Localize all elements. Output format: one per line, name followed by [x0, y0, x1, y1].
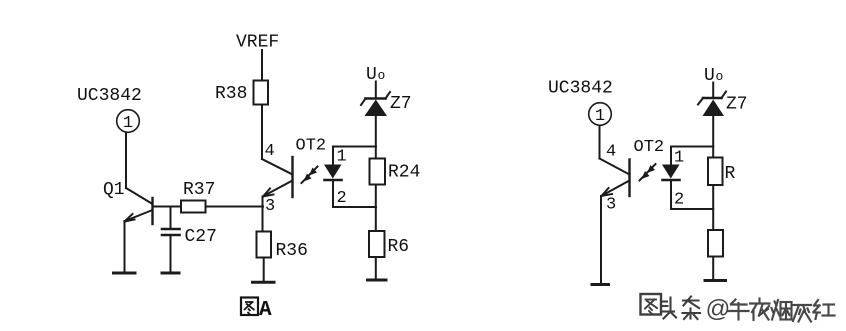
- svg-text:OT2: OT2: [296, 137, 327, 156]
- svg-text:C27: C27: [185, 227, 217, 247]
- svg-text:1: 1: [674, 149, 684, 168]
- svg-text:OT2: OT2: [634, 138, 665, 157]
- svg-text:R36: R36: [276, 241, 308, 261]
- svg-text:3: 3: [606, 196, 616, 215]
- svg-text:R: R: [725, 164, 736, 184]
- svg-text:VREF: VREF: [236, 33, 279, 53]
- svg-text:U: U: [704, 66, 715, 86]
- svg-text:R38: R38: [215, 84, 247, 104]
- svg-text:R6: R6: [388, 237, 410, 257]
- svg-text:Z7: Z7: [726, 95, 748, 115]
- svg-text:o: o: [378, 68, 386, 83]
- svg-text:@: @: [706, 296, 731, 323]
- svg-text:1: 1: [123, 114, 133, 133]
- svg-text:UC3842: UC3842: [77, 86, 142, 106]
- svg-text:4: 4: [265, 142, 275, 161]
- svg-text:Q1: Q1: [103, 180, 125, 200]
- svg-text:1: 1: [337, 148, 347, 167]
- svg-text:3: 3: [265, 197, 275, 216]
- svg-text:4: 4: [606, 143, 616, 162]
- svg-text:2: 2: [674, 191, 684, 210]
- svg-text:U: U: [366, 65, 377, 85]
- svg-text:o: o: [716, 69, 724, 84]
- svg-text:UC3842: UC3842: [548, 79, 613, 99]
- svg-text:Z7: Z7: [390, 94, 412, 114]
- svg-text:2: 2: [337, 189, 347, 208]
- svg-text:A: A: [259, 299, 272, 322]
- svg-text:1: 1: [595, 107, 605, 126]
- svg-text:R37: R37: [183, 180, 215, 200]
- svg-text:R24: R24: [388, 163, 420, 183]
